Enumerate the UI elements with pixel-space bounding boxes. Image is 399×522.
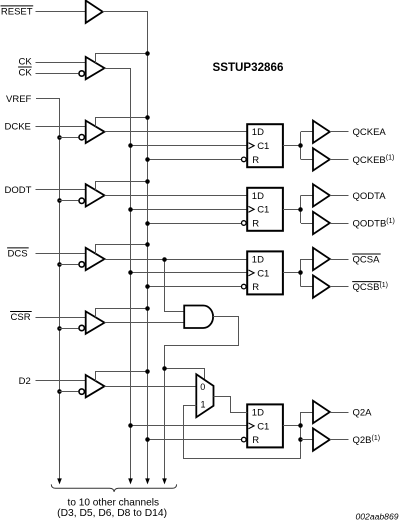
- svg-text:CK: CK: [19, 57, 33, 68]
- wire to buffer A FF3 (QCS): [301, 259, 313, 261]
- svg-text:D2: D2: [19, 376, 31, 387]
- svg-text:1D: 1D: [252, 191, 264, 202]
- wire reset rail to FF4 (Q2) R: [148, 439, 242, 441]
- wire output branch vertical FF1 (QCKE): [300, 132, 302, 160]
- wire reset rail to FF2 (QODT) R: [148, 223, 242, 225]
- wire select branch to MUX: [165, 369, 205, 381]
- junction FF2 (QODT) Q / branch: [298, 207, 303, 212]
- wire to buffer A FF2 (QODT): [301, 195, 313, 197]
- svg-text:DCKE: DCKE: [5, 121, 31, 132]
- wire feedback to MUX input 1: [184, 406, 301, 459]
- wire VREF rail: [36, 99, 60, 479]
- wire Q2B output: [330, 439, 349, 441]
- buffer U4 DODT receiver: [86, 184, 105, 206]
- wire U7 D2 signal input: [36, 380, 86, 382]
- wire MUX output to FF4 1D: [214, 397, 248, 413]
- wire VREF to U3 DCKE bubble: [59, 137, 78, 139]
- AND gate G1: [184, 306, 213, 329]
- svg-text:1: 1: [201, 399, 206, 409]
- inversion bubble U2: [79, 71, 84, 76]
- junction clock rail / FF2 (QODT) C1: [128, 207, 133, 212]
- wire output branch vertical FF2 (QODT): [300, 195, 302, 223]
- FF4 (Q2) R bubble: [242, 437, 247, 442]
- wire reset rail to FF1 (QCKE) R: [148, 159, 242, 161]
- inversion bubble U7 D2: [79, 389, 84, 394]
- wire U4 DODT enable stub: [96, 182, 148, 191]
- wire U7 D2 enable stub: [96, 372, 148, 382]
- svg-text:CK: CK: [19, 68, 33, 79]
- wire U6 CSR signal input: [36, 317, 86, 319]
- buffer U6 CSR receiver: [86, 311, 105, 333]
- wire Q2A output: [330, 412, 349, 414]
- wire output branch vertical FF3 (QCS): [300, 259, 302, 287]
- svg-text:QCKEA: QCKEA: [353, 127, 387, 138]
- svg-text:1D: 1D: [252, 407, 264, 418]
- svg-text:1D: 1D: [252, 127, 264, 138]
- svg-text:R: R: [252, 435, 259, 446]
- svg-text:DCS: DCS: [8, 249, 28, 260]
- wire to buffer B FF1 (QCKE): [301, 159, 313, 161]
- wire RESET input: [36, 11, 86, 13]
- arrowhead reset rail to other channels: [145, 478, 150, 484]
- mux M1: [196, 374, 213, 417]
- junction clock rail / FF1 (QCKE) C1: [128, 143, 133, 148]
- buffer QCSA driver: [313, 248, 330, 270]
- wire U6 output to AND gate: [105, 322, 185, 324]
- junction reset rail / U3 DCKE enable: [145, 115, 150, 120]
- wire QODTA output: [330, 195, 349, 197]
- wire clock rail to FF3 (QCS) C1: [131, 272, 248, 274]
- wire to buffer B FF3 (QCS): [301, 286, 313, 288]
- buffer U2 CK receiver: [86, 57, 105, 79]
- svg-text:002aab869: 002aab869: [355, 511, 398, 521]
- FF4 (Q2) clock wedge: [249, 423, 255, 429]
- wire clock rail to FF2 (QODT) C1: [131, 209, 248, 211]
- junction reset rail / FF3 (QCS) R: [145, 284, 150, 289]
- svg-text:RESET: RESET: [1, 7, 33, 18]
- junction FF3 (QCS) Q / branch: [298, 270, 303, 275]
- wire U6 CSR enable stub: [96, 309, 148, 318]
- svg-text:C1: C1: [257, 421, 269, 432]
- arrowhead clock rail to other channels: [128, 478, 133, 484]
- wire clock rail to FF4 (Q2) C1: [131, 425, 248, 427]
- svg-text:R: R: [252, 155, 259, 166]
- FF2 (QODT) clock wedge: [249, 206, 255, 212]
- junction reset rail / FF2 (QODT) R: [145, 221, 150, 226]
- junction VREF / U4 DODT: [57, 198, 62, 203]
- junction FF4 branch / feedback: [298, 437, 303, 442]
- svg-text:R: R: [252, 282, 259, 293]
- buffer U3 DCKE receiver: [86, 121, 105, 143]
- wire CK input: [36, 62, 86, 64]
- wire VREF to U6 CSR bubble: [59, 328, 78, 330]
- svg-text:SSTUP32866: SSTUP32866: [213, 61, 284, 74]
- svg-text:R: R: [252, 218, 259, 229]
- junction reset rail / FF4 (Q2) R: [145, 437, 150, 442]
- wire QCKEB output: [330, 159, 349, 161]
- wire FF3 (QCS) Q output: [283, 272, 301, 274]
- svg-text:1D: 1D: [252, 254, 264, 265]
- wire QODTB output: [330, 223, 349, 225]
- flip-flop FF4 (Q2): [247, 404, 283, 447]
- wire U3 DCKE signal input: [36, 126, 86, 128]
- wire DCS tap to AND input: [165, 259, 185, 312]
- junction clock rail / FF3 (QCS) C1: [128, 270, 133, 275]
- inversion bubble U4 DODT: [79, 198, 84, 203]
- junction reset rail / U6 CSR enable: [145, 306, 150, 311]
- svg-text:0: 0: [200, 382, 205, 392]
- wire FF1 (QCKE) Q output: [283, 145, 301, 147]
- wire QCSA output: [330, 259, 349, 261]
- junction reset rail / U4 DODT enable: [145, 179, 150, 184]
- svg-text:C1: C1: [257, 141, 269, 152]
- buffer U1 RESET: [86, 1, 103, 23]
- arrowhead select rail to other channels: [162, 478, 167, 484]
- svg-text:QODTA: QODTA: [353, 191, 387, 202]
- wire clock rail to FF1 (QCKE) C1: [131, 145, 248, 147]
- buffer Q2B driver: [313, 428, 330, 450]
- svg-text:VREF: VREF: [6, 94, 32, 105]
- svg-text:to 10 other channels: to 10 other channels: [68, 497, 159, 508]
- svg-text:QCSA: QCSA: [353, 254, 381, 265]
- junction clock rail / FF4 (Q2) C1: [128, 423, 133, 428]
- svg-text:C1: C1: [257, 205, 269, 216]
- flip-flop FF2 (QODT): [247, 188, 283, 231]
- svg-text:C1: C1: [257, 268, 269, 279]
- buffer U5 DCS receiver: [86, 248, 105, 270]
- buffer QCSB driver: [313, 275, 330, 297]
- junction reset rail / U7 D2 enable: [145, 369, 150, 374]
- FF1 (QCKE) R bubble: [242, 157, 247, 162]
- junction VREF / U7 D2: [57, 389, 62, 394]
- svg-text:CSR: CSR: [11, 312, 31, 323]
- wire U5 output to FF3 1D: [105, 259, 248, 261]
- wire U5 DCS enable stub: [96, 245, 148, 254]
- wire U2 enable stub: [96, 54, 148, 63]
- wire VREF to U5 DCS bubble: [59, 264, 78, 266]
- wire QCSB output: [330, 286, 349, 288]
- junction VREF / U3 DCKE: [57, 135, 62, 140]
- wire output branch vertical FF4: [300, 412, 302, 458]
- svg-text:(D3, D5, D6, D8 to D14): (D3, D5, D6, D8 to D14): [57, 508, 167, 519]
- wire reset rail to FF3 (QCS) R: [148, 286, 242, 288]
- wire U5 DCS signal input: [36, 253, 86, 255]
- wire to buffer A FF1 (QCKE): [301, 131, 313, 133]
- svg-text:Q2A: Q2A: [353, 407, 373, 418]
- wire CKbar input: [36, 73, 79, 75]
- inversion bubble U6 CSR: [79, 325, 84, 330]
- wire RESET output to reset rail: [103, 12, 148, 479]
- junction reset rail / FF1 (QCKE) R: [145, 157, 150, 162]
- FF3 (QCS) clock wedge: [249, 270, 255, 276]
- FF3 (QCS) R bubble: [242, 284, 247, 289]
- wire to buffer Q2B: [301, 439, 313, 441]
- junction reset rail / U2 enable: [145, 51, 150, 56]
- wire U4 DODT signal input: [36, 189, 86, 191]
- wire U4 output to FF2 1D: [105, 195, 248, 197]
- buffer QCKEB driver: [313, 148, 330, 170]
- junction VREF / U6 CSR: [57, 326, 62, 331]
- junction FF4 Q / branch: [298, 423, 303, 428]
- wire CK clock rail: [105, 69, 131, 479]
- wire VREF to U4 DODT bubble: [59, 200, 78, 202]
- junction FF1 (QCKE) Q / branch: [298, 143, 303, 148]
- buffer QODTB driver: [313, 212, 330, 234]
- junction VREF / U5 DCS: [57, 262, 62, 267]
- wire U3 output to FF1 1D: [105, 131, 248, 133]
- FF2 (QODT) R bubble: [242, 221, 247, 226]
- buffer QCKEA driver: [313, 121, 330, 143]
- arrowhead VREF rail to other channels: [57, 478, 62, 484]
- wire U3 DCKE enable stub: [96, 118, 148, 127]
- junction select rail / MUX branch: [162, 366, 167, 371]
- wire QCKEA output: [330, 131, 349, 133]
- FF1 (QCKE) clock wedge: [249, 143, 255, 149]
- wire FF4 Q output: [283, 425, 301, 427]
- junction DCS line / AND tap: [162, 257, 167, 262]
- junction reset rail / U5 DCS enable: [145, 242, 150, 247]
- flip-flop FF1 (QCKE): [247, 124, 283, 167]
- wire to buffer B FF2 (QODT): [301, 223, 313, 225]
- wire VREF to U7 D2 bubble: [59, 391, 78, 393]
- inversion bubble U5 DCS: [79, 262, 84, 267]
- buffer Q2A driver: [313, 401, 330, 423]
- wire U7 output to MUX input 0: [105, 386, 197, 388]
- wire FF2 (QODT) Q output: [283, 209, 301, 211]
- flip-flop FF3 (QCS): [247, 251, 283, 294]
- wire AND output / select rail: [165, 317, 239, 479]
- buffer QODTA driver: [313, 184, 330, 206]
- wire to buffer Q2A: [301, 412, 313, 414]
- svg-text:DODT: DODT: [5, 185, 32, 196]
- buffer U7 D2 receiver: [86, 375, 105, 397]
- brace other channels: [51, 484, 176, 491]
- inversion bubble U3 DCKE: [79, 135, 84, 140]
